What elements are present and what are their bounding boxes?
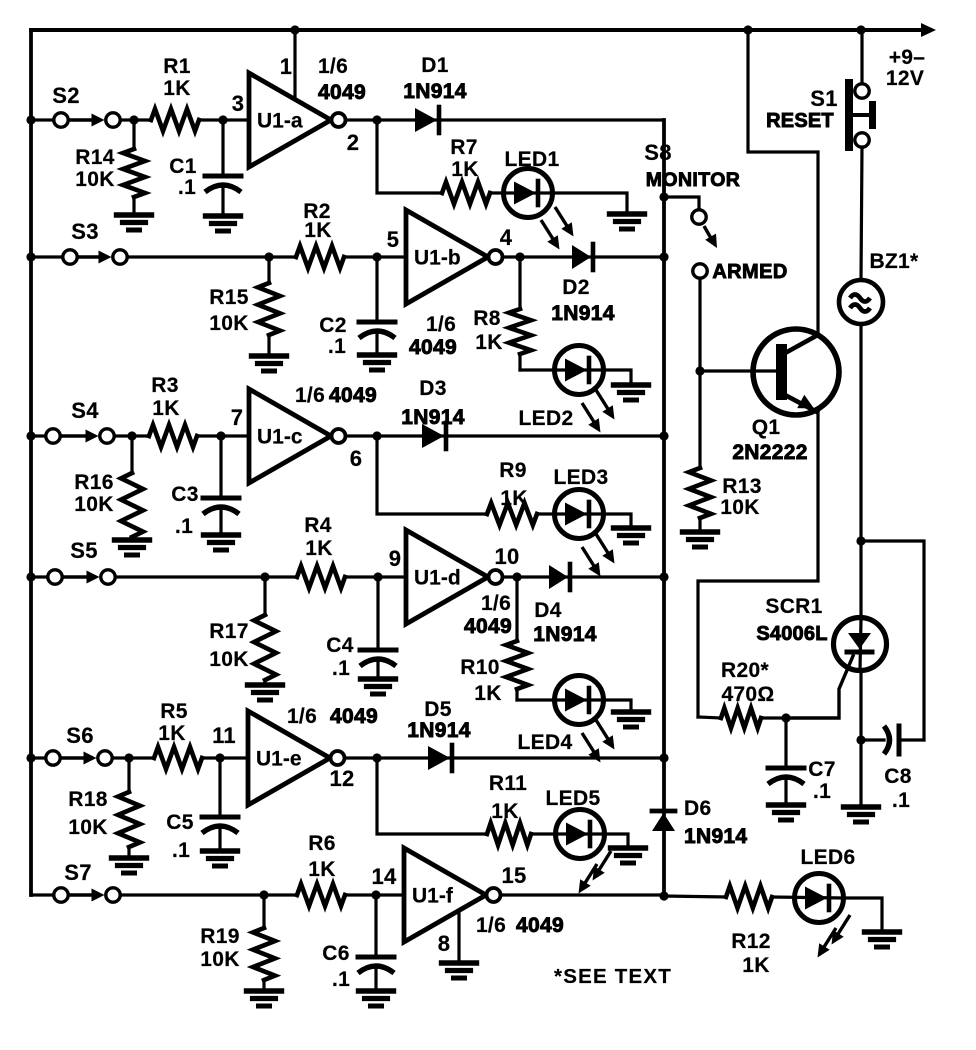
- svg-text:C1: C1: [169, 155, 196, 178]
- svg-text:R12: R12: [731, 930, 770, 953]
- wire C8 top branch: [861, 541, 924, 740]
- svg-text:R16: R16: [74, 471, 113, 494]
- svg-text:MONITOR: MONITOR: [646, 169, 741, 191]
- wire S5 to R4: [116, 575, 298, 578]
- wire SCR1 gate: [786, 656, 853, 718]
- svg-text:10: 10: [494, 544, 519, 569]
- svg-text:Q1: Q1: [752, 416, 781, 439]
- resistor R5 1K: [154, 747, 202, 769]
- svg-text:1K: 1K: [491, 800, 518, 823]
- junction Q1 base / R13: [695, 366, 704, 375]
- LED LED6: [795, 874, 844, 923]
- junction alarm bus y=577: [659, 572, 668, 581]
- op-amp inverter U1-a: [249, 73, 331, 167]
- svg-text:C3: C3: [171, 483, 198, 506]
- junction alarm bus y=436: [659, 431, 668, 440]
- junction R20 / C7 / gate: [781, 713, 790, 722]
- svg-text:R17: R17: [209, 620, 248, 643]
- svg-text:1/6: 1/6: [318, 55, 348, 78]
- svg-text:2: 2: [347, 130, 360, 155]
- resistor R19 10K: [262, 895, 265, 928]
- switch S8 armed pole: [693, 264, 707, 278]
- svg-text:1N914: 1N914: [401, 406, 464, 429]
- wire U1-f output: [501, 893, 664, 896]
- wire S3 to R2: [128, 255, 297, 258]
- svg-text:D5: D5: [424, 698, 451, 721]
- svg-text:.1: .1: [892, 789, 910, 812]
- svg-text:*SEE TEXT: *SEE TEXT: [554, 965, 672, 988]
- ground R17: [248, 682, 283, 687]
- wire S7 row input: [31, 893, 54, 896]
- svg-text:R13: R13: [722, 475, 761, 498]
- svg-text:.1: .1: [332, 657, 350, 680]
- op-amp inverter U1-f: [404, 848, 486, 942]
- svg-text:R4: R4: [304, 514, 331, 537]
- svg-text:LED5: LED5: [546, 787, 601, 810]
- svg-text:2N2222: 2N2222: [732, 441, 807, 464]
- resistor R7 1K: [442, 182, 490, 204]
- svg-text:470Ω: 470Ω: [721, 683, 774, 706]
- switch S3: [63, 250, 77, 264]
- svg-text:R15: R15: [209, 286, 248, 309]
- svg-text:RESET: RESET: [766, 110, 834, 132]
- capacitor C2 .1: [375, 257, 378, 322]
- junction left bus y=758: [26, 753, 35, 762]
- svg-text:S6: S6: [66, 723, 94, 748]
- ground LED5: [611, 845, 646, 850]
- wire U1-c output: [346, 434, 664, 437]
- svg-text:R19: R19: [200, 925, 239, 948]
- junction R15 tap: [264, 252, 273, 261]
- resistor R6 1K: [297, 884, 345, 906]
- svg-text:14: 14: [371, 864, 397, 889]
- wire S2 row input: [31, 118, 54, 121]
- svg-text:S2: S2: [52, 83, 80, 108]
- svg-text:1N914: 1N914: [684, 825, 747, 848]
- junction U1-d output branch: [512, 572, 521, 581]
- ground R15: [252, 353, 287, 358]
- ground C4: [361, 676, 396, 681]
- resistor R17 10K: [263, 577, 266, 615]
- svg-text:10K: 10K: [74, 493, 113, 516]
- svg-text:D4: D4: [534, 599, 561, 622]
- svg-text:1K: 1K: [163, 77, 190, 100]
- svg-text:.1: .1: [172, 839, 190, 862]
- junction alarm bus y=257: [659, 252, 668, 261]
- svg-text:LED2: LED2: [519, 407, 574, 430]
- wire LED3 to ground: [603, 514, 631, 528]
- svg-text:D2: D2: [562, 276, 589, 299]
- resistor R10 1K: [515, 577, 518, 641]
- junction R19 tap: [259, 890, 268, 899]
- diode D4 1N914: [549, 565, 568, 589]
- wire S5 row input: [31, 575, 48, 578]
- ground R16: [115, 537, 150, 542]
- svg-text:LED3: LED3: [554, 466, 609, 489]
- ground U1-f pin 8: [442, 960, 477, 965]
- junction left bus y=577: [26, 572, 35, 581]
- wire LED4 to ground: [603, 700, 631, 712]
- svg-text:1K: 1K: [475, 331, 502, 354]
- SCR1 S4006L: [834, 618, 887, 671]
- switch S7: [54, 888, 68, 902]
- svg-text:U1-a: U1-a: [257, 110, 303, 133]
- wire R11 to LED5: [531, 832, 604, 835]
- svg-text:4049: 4049: [409, 336, 457, 359]
- svg-text:C6: C6: [322, 942, 349, 965]
- svg-text:4049: 4049: [329, 384, 377, 407]
- svg-text:1/6: 1/6: [426, 313, 456, 336]
- svg-text:8: 8: [438, 931, 451, 956]
- wire LED6 to ground: [843, 898, 882, 931]
- svg-text:R3: R3: [151, 374, 178, 397]
- op-amp inverter U1-d: [406, 530, 488, 624]
- wire LED2 to ground: [603, 370, 631, 385]
- resistor R18 10K: [127, 758, 130, 792]
- resistor R4 1K: [297, 566, 345, 588]
- wire R2 to U1-b input: [344, 255, 406, 258]
- svg-text:+9–: +9–: [889, 46, 926, 69]
- junction C4 tap / pin: [373, 572, 382, 581]
- resistor R9 1K: [487, 503, 537, 525]
- junction +V rail / Q1 collector branch: [743, 25, 752, 34]
- svg-text:10K: 10K: [720, 496, 759, 519]
- svg-text:D3: D3: [419, 377, 446, 400]
- ground C1: [206, 213, 241, 218]
- svg-text:10K: 10K: [209, 312, 248, 335]
- wire R7 to LED1: [490, 191, 552, 194]
- resistor R13 10K: [698, 371, 701, 468]
- svg-text:U1-e: U1-e: [256, 748, 302, 771]
- svg-text:S4: S4: [71, 398, 99, 423]
- svg-text:1N914: 1N914: [533, 623, 596, 646]
- svg-text:4049: 4049: [464, 615, 512, 638]
- svg-text:SCR1: SCR1: [765, 595, 822, 618]
- junction U1-c output branch: [372, 431, 381, 440]
- switch S2: [54, 113, 68, 127]
- svg-text:LED4: LED4: [518, 731, 573, 754]
- wire S7 to R6: [121, 893, 298, 896]
- resistor R1 1K: [151, 109, 199, 131]
- svg-text:1/6: 1/6: [476, 914, 506, 937]
- svg-text:1K: 1K: [451, 158, 478, 181]
- resistor R11 1K: [487, 823, 531, 845]
- svg-text:1N914: 1N914: [407, 719, 470, 742]
- capacitor C7 .1: [784, 718, 787, 768]
- svg-text:.1: .1: [813, 780, 831, 803]
- junction C5 tap / pin: [215, 753, 224, 762]
- junction BZ1 / C8 branch: [856, 536, 865, 545]
- wire Q1 base: [700, 369, 777, 372]
- resistor R16 10K: [130, 436, 133, 473]
- wire +V top supply rail: [31, 28, 922, 32]
- wire LED1 to ground: [552, 193, 627, 214]
- resistor R14 10K: [132, 120, 135, 149]
- junction +V rail / S1: [856, 25, 865, 34]
- junction alarm bus y=197: [659, 192, 668, 201]
- svg-text:15: 15: [501, 863, 526, 888]
- svg-text:ARMED: ARMED: [712, 261, 787, 283]
- wire U1-d output: [503, 575, 664, 578]
- wire U1-a output: [346, 118, 664, 121]
- junction +V rail / U1-a pin1: [290, 25, 299, 34]
- wire S1 to BZ1: [861, 147, 862, 280]
- wire R4 to U1-d input: [345, 575, 406, 578]
- svg-text:S8: S8: [644, 140, 672, 165]
- svg-text:1K: 1K: [304, 219, 331, 242]
- wire R3 to U1-c input: [197, 434, 249, 437]
- svg-text:4049: 4049: [516, 914, 564, 937]
- svg-text:R10: R10: [460, 656, 499, 679]
- wire alarm bus (D1-D5 outputs): [662, 120, 666, 896]
- svg-text:U1-b: U1-b: [414, 247, 461, 270]
- svg-text:12V: 12V: [886, 67, 924, 90]
- svg-text:1N914: 1N914: [551, 302, 614, 325]
- svg-text:4: 4: [500, 225, 513, 250]
- junction alarm bus y=896: [659, 891, 668, 900]
- ground SCR1 cathode: [844, 804, 879, 809]
- resistor R12 1K: [726, 886, 772, 908]
- svg-text:R11: R11: [489, 772, 527, 795]
- op-amp inverter U1-b: [406, 210, 488, 304]
- svg-text:R8: R8: [473, 307, 500, 330]
- wire R8 to LED2: [520, 368, 603, 371]
- ground LED2: [614, 382, 649, 387]
- svg-text:1K: 1K: [152, 397, 179, 420]
- capacitor C5 .1: [218, 758, 221, 817]
- wire left sense bus: [29, 30, 33, 895]
- junction C3 tap / pin: [216, 431, 225, 440]
- wire R6 to U1-f input: [345, 893, 404, 896]
- capacitor C8 .1: [861, 738, 884, 741]
- capacitor C6 .1: [374, 895, 377, 957]
- svg-text:11: 11: [212, 723, 236, 748]
- wire S2 to R1: [121, 118, 152, 121]
- svg-text:1/6: 1/6: [295, 384, 325, 407]
- wire U1-e output to R11: [377, 758, 487, 834]
- ground R18: [112, 855, 147, 860]
- junction R14 tap: [129, 115, 138, 124]
- svg-text:S4006L: S4006L: [756, 623, 827, 645]
- ground C6: [359, 988, 394, 993]
- resistor R15 10K: [267, 257, 270, 283]
- switch S5: [48, 570, 62, 584]
- svg-text:R9: R9: [499, 459, 526, 482]
- junction U1-a output branch: [372, 115, 381, 124]
- svg-text:.1: .1: [328, 335, 346, 358]
- wire Q1 emitter to R20: [698, 411, 818, 717]
- svg-text:1K: 1K: [474, 682, 501, 705]
- resistor R20* 470ohm: [698, 717, 721, 718]
- transistor Q1 2N2222: [753, 329, 839, 415]
- svg-text:.1: .1: [332, 968, 350, 991]
- capacitor C1 .1: [221, 120, 224, 176]
- diode D6 1N914: [652, 809, 675, 814]
- svg-text:1: 1: [280, 54, 293, 79]
- junction left bus y=436: [26, 431, 35, 440]
- capacitor C3 .1: [219, 436, 222, 498]
- diode D3 1N914: [422, 424, 444, 448]
- svg-text:1K: 1K: [308, 858, 335, 881]
- svg-text:4049: 4049: [330, 705, 378, 728]
- junction left bus y=120: [26, 115, 35, 124]
- svg-text:1K: 1K: [158, 722, 185, 745]
- ground LED6: [865, 929, 900, 934]
- svg-text:R14: R14: [75, 146, 114, 169]
- svg-text:BZ1*: BZ1*: [869, 250, 919, 273]
- svg-text:C4: C4: [326, 634, 353, 657]
- wire U1-b output: [503, 255, 664, 258]
- svg-text:1/6: 1/6: [287, 705, 317, 728]
- svg-text:3: 3: [232, 91, 245, 116]
- svg-text:LED6: LED6: [801, 846, 856, 869]
- ground LED4: [614, 709, 649, 714]
- wire S8 armed to Q1 base: [698, 278, 701, 371]
- svg-text:1K: 1K: [742, 954, 769, 977]
- op-amp inverter U1-c: [249, 389, 331, 483]
- wire R5 to U1-e input: [202, 756, 248, 759]
- ground R13: [683, 529, 718, 534]
- capacitor C4 .1: [376, 577, 379, 650]
- resistor R3 1K: [149, 425, 197, 447]
- svg-text:R5: R5: [160, 700, 187, 723]
- svg-text:C2: C2: [319, 314, 346, 337]
- wire BZ1 to SCR1 anode: [859, 324, 862, 620]
- svg-text:6: 6: [350, 446, 363, 471]
- switch S4: [46, 429, 60, 443]
- LED LED3: [555, 490, 604, 539]
- svg-text:LED1: LED1: [505, 148, 560, 171]
- ground C2: [360, 352, 395, 357]
- svg-text:R7: R7: [450, 136, 477, 159]
- buzzer BZ1: [839, 280, 883, 324]
- svg-text:9: 9: [389, 546, 402, 571]
- wire alarm bus to S8: [664, 197, 699, 210]
- svg-text:4049: 4049: [318, 81, 366, 104]
- wire U1-a output to R7: [377, 120, 442, 193]
- svg-text:10K: 10K: [209, 648, 248, 671]
- svg-text:U1-d: U1-d: [414, 567, 461, 590]
- svg-text:C8: C8: [884, 765, 911, 788]
- resistor R2 1K: [296, 246, 344, 268]
- svg-text:7: 7: [231, 405, 244, 430]
- diode D1 1N914: [415, 108, 437, 132]
- wire U1-f pin 8 to ground: [457, 911, 460, 962]
- ground R19: [247, 988, 282, 993]
- junction alarm bus y=758: [659, 753, 668, 762]
- wire R9 to LED3: [537, 512, 603, 515]
- svg-text:R6: R6: [308, 832, 335, 855]
- wire +V to S1: [860, 30, 863, 84]
- wire LED5 to ground: [604, 834, 628, 848]
- svg-text:R1: R1: [163, 55, 190, 78]
- svg-text:12: 12: [329, 766, 354, 791]
- wire U1-e output: [345, 756, 664, 759]
- junction SCR1 cathode / C8: [856, 735, 865, 744]
- junction C6 tap / pin: [371, 890, 380, 899]
- svg-text:C7: C7: [808, 758, 835, 781]
- switch S1 pushbutton RESET: [855, 84, 869, 98]
- junction C2 tap / pin: [372, 252, 381, 261]
- op-amp inverter U1-e: [248, 711, 330, 805]
- resistor R8 1K: [518, 257, 521, 309]
- svg-text:U1-f: U1-f: [412, 885, 454, 908]
- ground LED1: [610, 211, 645, 216]
- junction C1 tap / pin: [218, 115, 227, 124]
- svg-text:1N914: 1N914: [403, 80, 466, 103]
- svg-text:S7: S7: [64, 860, 92, 885]
- diode D5 1N914: [428, 746, 450, 770]
- LED LED2: [555, 346, 604, 395]
- svg-text:S3: S3: [71, 219, 99, 244]
- wire R10 to LED4: [517, 698, 603, 701]
- diode D2 1N914: [572, 245, 591, 269]
- wire alarm bus to R12: [664, 896, 726, 897]
- svg-text:S5: S5: [70, 538, 98, 563]
- svg-text:1K: 1K: [305, 537, 332, 560]
- svg-text:R18: R18: [68, 788, 107, 811]
- wire U1-a pin 1 to +V: [293, 30, 296, 97]
- wire S6 row input: [31, 756, 46, 759]
- LED LED1: [504, 169, 553, 218]
- svg-text:D1: D1: [421, 54, 448, 77]
- svg-text:U1-c: U1-c: [257, 426, 303, 449]
- svg-text:5: 5: [387, 227, 400, 252]
- wire S4 row input: [31, 434, 46, 437]
- junction U1-e output branch: [372, 753, 381, 762]
- wire S3 row input: [31, 255, 63, 258]
- junction R16 tap: [127, 431, 136, 440]
- junction R18 tap: [124, 753, 133, 762]
- LED LED4: [555, 676, 604, 725]
- wire U1-c output to R9: [377, 436, 487, 514]
- ground LED3: [614, 525, 649, 530]
- svg-text:.1: .1: [178, 176, 196, 199]
- junction U1-b output branch: [515, 252, 524, 261]
- ground C3: [204, 532, 239, 537]
- ground C7: [769, 802, 804, 807]
- svg-text:C5: C5: [166, 811, 193, 834]
- switch S8 arm (arrow): [704, 226, 712, 240]
- wire S4 to R3: [115, 434, 150, 437]
- junction left bus y=257: [26, 252, 35, 261]
- svg-text:.1: .1: [175, 515, 193, 538]
- svg-text:D6: D6: [684, 797, 711, 820]
- switch S8 monitor pole: [692, 210, 706, 224]
- LED LED5: [556, 810, 605, 859]
- svg-text:10K: 10K: [75, 168, 114, 191]
- wire R1 to U1-a input: [199, 118, 249, 121]
- wire R12 to LED6: [772, 897, 843, 898]
- junction R17 tap: [260, 572, 269, 581]
- svg-text:S1: S1: [810, 86, 838, 111]
- ground R14: [117, 212, 152, 217]
- svg-text:10K: 10K: [68, 816, 107, 839]
- wire Q1 collector to +V rail: [748, 30, 818, 334]
- svg-text:10K: 10K: [200, 948, 239, 971]
- wire SCR1 cathode to ground: [859, 670, 862, 806]
- ground C5: [203, 848, 238, 853]
- svg-text:1K: 1K: [500, 487, 527, 510]
- wire S6 to R5: [113, 756, 155, 759]
- svg-text:R20*: R20*: [721, 659, 769, 682]
- svg-text:1/6: 1/6: [481, 592, 511, 615]
- switch S6: [46, 751, 60, 765]
